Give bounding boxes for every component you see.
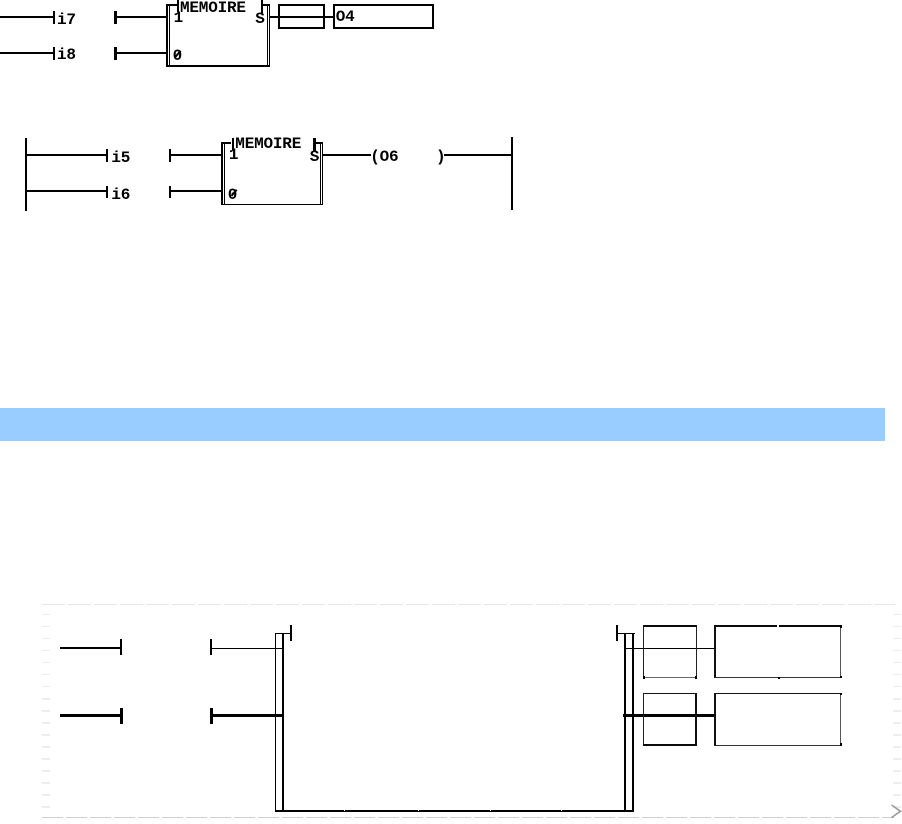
- coil O6 text: [370, 149, 445, 165]
- contact i5 tick left: [106, 149, 108, 162]
- bottom edge grid notch 4: [561, 810, 562, 811]
- U2 left outer edge: [221, 142, 223, 205]
- scrollbar chevron: [888, 801, 902, 823]
- U2 left inner edge: [224, 142, 225, 205]
- contact i8 tick right: [114, 47, 116, 60]
- wire U2 output to coil: [323, 154, 371, 156]
- contact i8 tick left: [53, 47, 55, 60]
- bottom edge grid notch 1: [344, 810, 345, 811]
- label i7: [57, 12, 76, 28]
- large result box row1: [714, 625, 841, 678]
- U2 right outer edge: [322, 142, 323, 205]
- large box row1 top notch: [777, 625, 779, 627]
- wire i8 to block: [117, 52, 167, 54]
- large box row1 right-top corner dot: [840, 625, 842, 628]
- highlight bar: [0, 408, 885, 441]
- U2 pin label 1: [229, 147, 238, 163]
- U1 right inner edge: [267, 4, 268, 67]
- U2 top edge right segment: [315, 142, 323, 143]
- row1 connector to boxes: [626, 648, 715, 649]
- wire U1 output to O4: [270, 16, 333, 18]
- big block left outer line: [282, 633, 285, 812]
- wire i5 from rail: [25, 154, 106, 156]
- U1 pin tick output S: [261, 0, 263, 13]
- U1 zero slash: [175, 51, 181, 58]
- small box row1 corner stub left: [643, 676, 645, 679]
- big block bottom edge: [275, 810, 635, 813]
- large box row1 bottom stub: [778, 677, 780, 680]
- row1 contact tick b: [210, 639, 213, 655]
- left grid dash column: [0, 0, 1, 1]
- big block right line 1: [624, 633, 626, 811]
- grid top boundary line: [42, 604, 895, 605]
- U1 block name MEMOIRE: [180, 0, 246, 16]
- bottom edge grid notch 2: [418, 810, 419, 811]
- small result box row1: [643, 625, 698, 678]
- row2 connector to boxes: [623, 714, 714, 717]
- wire i8 left segment: [0, 52, 53, 54]
- contact i5 tick right: [169, 149, 171, 162]
- U2 zero slash: [230, 189, 236, 196]
- U2 top edge left segment: [221, 142, 232, 143]
- U1 pin label 0: [173, 48, 182, 64]
- label i5: [111, 150, 130, 166]
- wire i7 to block: [117, 16, 167, 18]
- contact i7 tick left: [53, 11, 55, 24]
- contact i6 tick left: [106, 186, 108, 199]
- small box row1 corner stub right: [695, 676, 697, 679]
- U2 pin tick output S: [313, 138, 315, 151]
- right power rail: [511, 137, 513, 210]
- U2 block name MEMOIRE: [235, 136, 301, 152]
- U1 pin label 1: [174, 10, 183, 26]
- U1 left outer edge: [166, 4, 168, 66]
- contact i6 tick right: [169, 186, 171, 199]
- U1 top edge left segment: [166, 4, 177, 5]
- empty operation box: [278, 4, 325, 29]
- U2 bottom edge: [221, 204, 324, 206]
- left power rail: [25, 138, 27, 211]
- label i8: [57, 47, 76, 63]
- row2 contact tick b: [210, 708, 213, 724]
- U1 right outer edge: [269, 4, 270, 67]
- big block pin tick left: [290, 625, 292, 641]
- right grid dash column: [0, 0, 1, 1]
- U1 top edge right segment: [263, 4, 270, 5]
- U1 pin label S: [255, 11, 264, 27]
- row2 wire a: [60, 714, 121, 717]
- large box row2 right-top corner dot: [840, 693, 842, 695]
- U1 bottom edge: [166, 65, 270, 67]
- bottom edge grid notch 3: [490, 810, 491, 811]
- wire i6 from rail: [25, 190, 106, 192]
- row1 wire a: [60, 647, 120, 648]
- O4 coil box: [333, 4, 434, 30]
- small result box row2: [643, 693, 698, 746]
- U2 pin tick input 1: [232, 138, 234, 150]
- large box row1 right-bottom corner dot: [840, 676, 842, 678]
- U2 pin label S: [310, 149, 319, 165]
- label O4: [336, 9, 355, 25]
- large box row2 right-bottom corner dot: [840, 743, 842, 746]
- big block left inner line: [275, 633, 276, 811]
- wire coil to right rail: [444, 154, 511, 156]
- U2 right inner edge: [320, 142, 321, 205]
- row2 contact tick a: [120, 708, 123, 724]
- wire i7 left segment: [0, 16, 53, 18]
- wire i5 to block: [171, 154, 220, 156]
- large result box row2: [714, 693, 841, 746]
- big block pin tick right: [616, 625, 618, 641]
- row1 wire b: [212, 648, 282, 649]
- label i6: [111, 187, 130, 203]
- U1 left inner edge: [169, 4, 170, 66]
- row1 contact tick a: [120, 639, 122, 655]
- contact i7 tick right: [114, 11, 116, 24]
- row2 wire b: [213, 714, 284, 717]
- big block top-left stub: [275, 633, 291, 634]
- U2 pin label 0: [228, 187, 237, 203]
- U1 pin tick input 1: [177, 0, 179, 12]
- wire i6 to block: [171, 190, 220, 192]
- big block top-right stub: [617, 633, 635, 634]
- big block right line 2: [632, 633, 634, 811]
- grid bottom boundary line: [42, 817, 894, 818]
